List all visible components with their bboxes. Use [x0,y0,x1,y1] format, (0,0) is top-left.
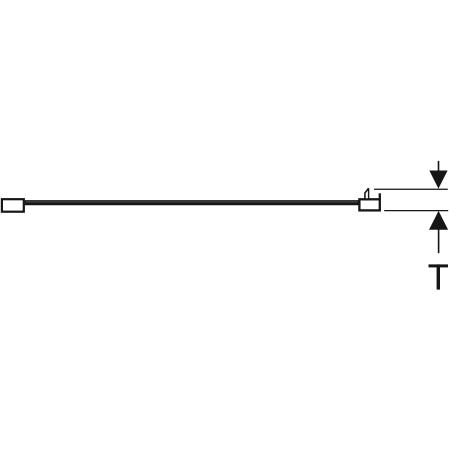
up arrow stem [438,228,440,253]
up arrow head [429,211,448,230]
clip tab inner sliver [366,191,368,199]
clip tab [364,188,369,201]
top extension line [374,188,448,190]
down arrow stem [438,161,440,172]
clip right wall [379,193,381,200]
left end cap [2,199,24,212]
clip body [359,199,379,210]
bottom extension line [384,210,448,212]
label T [429,264,449,289]
rod [25,200,359,205]
down arrow head [429,171,447,189]
rod inner highlight [26,201,358,204]
